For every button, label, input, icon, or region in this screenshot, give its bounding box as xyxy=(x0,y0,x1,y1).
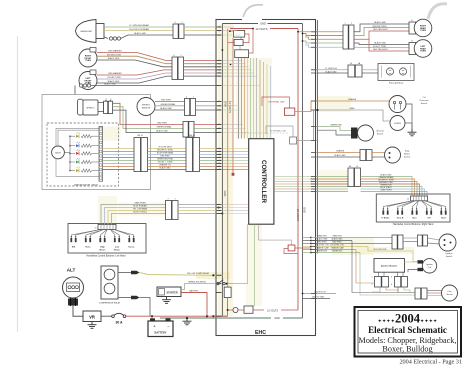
wire speedo sig xyxy=(113,107,184,129)
svg-text:Beam: Beam xyxy=(100,249,106,251)
svg-text:VIOLET-TURN: VIOLET-TURN xyxy=(107,77,121,79)
right 12V vertical label xyxy=(296,209,300,221)
EHC bottom fuse xyxy=(224,287,231,297)
label fog pwr xyxy=(325,68,337,70)
label LFT marker xyxy=(108,72,122,75)
neutral switch plug xyxy=(351,128,358,139)
handlebar left terminals xyxy=(70,230,135,252)
wire headlight high beam xyxy=(104,26,173,28)
connector rear lighting xyxy=(343,23,354,49)
EHC 12V fuse oval xyxy=(227,307,238,312)
svg-text:VR: VR xyxy=(89,315,95,320)
svg-text:GREEN SIGNAL: GREEN SIGNAL xyxy=(156,126,172,129)
page curl top right xyxy=(428,4,447,19)
svg-text:Handlebar Control Bottoms: Lef: Handlebar Control Bottoms: Left Hand xyxy=(87,254,127,257)
starter xyxy=(157,287,181,297)
svg-text:BLACK GND: BLACK GND xyxy=(156,130,168,133)
svg-text:ORANGE CAM: ORANGE CAM xyxy=(316,247,329,250)
label RRT gnd xyxy=(374,21,386,24)
horn ground symbol xyxy=(408,129,417,136)
left front turn lamp xyxy=(79,70,97,90)
EHC left edge feeds xyxy=(222,27,260,214)
external line 1 relay xyxy=(262,97,295,115)
EHC label xyxy=(255,330,266,336)
relay K3 xyxy=(235,50,249,58)
junction EHC batt xyxy=(212,315,214,317)
junction battery plus xyxy=(151,315,153,317)
wire fuse top xyxy=(227,286,229,288)
svg-text:BROWN TURN: BROWN TURN xyxy=(373,26,387,28)
svg-text:1: 1 xyxy=(193,97,194,99)
12 VOLTS top wire xyxy=(230,26,298,30)
svg-text:1: 1 xyxy=(174,199,175,201)
svg-text:3: 3 xyxy=(106,98,107,100)
svg-text:RED TAILLIGHT: RED TAILLIGHT xyxy=(373,48,388,51)
svg-text:GRAY: GRAY xyxy=(349,107,355,110)
label RFT gnd xyxy=(108,57,120,60)
wires fog to assy xyxy=(362,70,378,73)
headlight gnd bullets xyxy=(104,35,173,40)
label compressor relay xyxy=(99,302,121,305)
left 12V bus xyxy=(227,29,229,288)
wire RRT gnd xyxy=(354,24,414,32)
svg-text:YELLOW COIL: YELLOW COIL xyxy=(373,249,387,251)
wire LRT gnd xyxy=(354,43,414,45)
svg-text:RED PWR: RED PWR xyxy=(333,242,343,244)
svg-text:GND: GND xyxy=(274,317,280,320)
speedo sensor xyxy=(137,98,155,116)
label sensor gnd xyxy=(160,107,172,110)
wire headlight lb to EHC xyxy=(184,30,217,32)
label gnd bus xyxy=(274,317,280,320)
highlight band left bus xyxy=(218,24,233,316)
svg-text:SENSOR: SENSOR xyxy=(142,107,151,109)
svg-text:7: 7 xyxy=(167,199,168,201)
label RRT turn xyxy=(373,26,387,28)
label yellow comp relay xyxy=(187,272,210,275)
svg-text:TURN: TURN xyxy=(85,60,91,62)
label neutral wire xyxy=(330,125,342,127)
svg-text:TURN: TURN xyxy=(420,51,426,53)
connector cam xyxy=(415,288,427,299)
EHC aux relay xyxy=(288,245,295,251)
svg-text:BLACK GND: BLACK GND xyxy=(317,238,329,241)
wire starter battery xyxy=(181,293,207,317)
svg-text:ORANGE: ORANGE xyxy=(336,150,345,153)
controller right wires xyxy=(274,177,311,192)
svg-text:15 14 13: 15 14 13 xyxy=(309,178,311,185)
svg-text:BLUE HIGH BEAM: BLUE HIGH BEAM xyxy=(157,152,173,155)
wires EHC to rear connector xyxy=(297,31,343,47)
highlight band ignition bundle xyxy=(332,237,374,255)
ground bus wire xyxy=(160,316,303,320)
tach loop wires xyxy=(56,128,99,176)
wire solenoid into EHC xyxy=(232,283,248,285)
wires bundle down xyxy=(352,241,415,296)
wires annunciator to SB15 xyxy=(103,149,135,170)
wire oil sw gnd xyxy=(406,104,412,129)
label LRT turn xyxy=(373,46,387,48)
svg-text:EHC: EHC xyxy=(255,330,266,336)
svg-text:Low: Low xyxy=(115,247,120,249)
svg-text:Horn: Horn xyxy=(86,246,92,249)
annunciator lamp row 3 xyxy=(69,149,99,155)
svg-text:YEL LOW BEAM: YEL LOW BEAM xyxy=(133,208,148,211)
svg-text:Off: Off xyxy=(427,218,430,220)
EHC left edge pin ticks xyxy=(217,27,222,316)
title line2 xyxy=(368,325,447,335)
svg-text:STARTER: STARTER xyxy=(166,292,177,295)
svg-text:LT. GRN HIGH BEAM: LT. GRN HIGH BEAM xyxy=(129,24,149,27)
wire VR to breaker xyxy=(101,315,112,317)
label ignition switch xyxy=(445,252,453,258)
label headlight black gnd xyxy=(134,32,146,35)
svg-text:GOLD/YEL COIL: GOLD/YEL COIL xyxy=(315,245,329,247)
annunciator dashed box xyxy=(47,123,119,186)
handlebar right connector xyxy=(407,196,428,201)
ignition coil xyxy=(422,259,436,273)
svg-text:BLACK GND: BLACK GND xyxy=(108,57,120,60)
label gauge black gnd xyxy=(104,83,116,86)
svg-text:7: 7 xyxy=(344,23,345,25)
dashed signal wire xyxy=(238,132,288,134)
label RFT marker xyxy=(108,50,122,53)
alternator plug xyxy=(68,298,78,306)
connector front turn xyxy=(172,55,184,80)
connector fog xyxy=(348,62,362,77)
page curl top center xyxy=(243,5,263,18)
right rear turn lamp xyxy=(409,19,432,37)
svg-text:Sensor: Sensor xyxy=(446,294,453,296)
svg-text:BLUE HI BEAM: BLUE HI BEAM xyxy=(133,205,147,208)
page edge shadow xyxy=(17,36,19,332)
svg-text:BATTERY: BATTERY xyxy=(155,330,167,334)
left GND bus xyxy=(221,24,223,317)
module wires down xyxy=(372,287,410,293)
connector brake xyxy=(360,150,372,161)
svg-text:Neutral: Neutral xyxy=(376,130,384,133)
ignition switch xyxy=(439,234,456,251)
annunciator lamp row 2 xyxy=(69,142,99,148)
svg-text:GND: GND xyxy=(260,22,266,26)
svg-text:3: 3 xyxy=(174,22,175,24)
svg-text:1: 1 xyxy=(111,98,112,100)
controller U1 xyxy=(249,139,274,225)
wires conn to ign switch xyxy=(403,238,440,244)
label fog gnd xyxy=(326,70,338,73)
svg-text:YELLOW TACH: YELLOW TACH xyxy=(158,146,172,149)
label speedo pwr xyxy=(157,123,167,125)
ALT label xyxy=(67,268,76,273)
svg-text:1: 1 xyxy=(351,23,352,25)
highlight band right of EHC xyxy=(318,96,351,112)
label RFT turn xyxy=(107,54,121,56)
handlebar right terminals xyxy=(382,201,447,220)
VR ground xyxy=(88,322,97,329)
wire oil pressure orange xyxy=(295,101,389,112)
highlight band annunciator out xyxy=(103,127,121,141)
svg-text:ORANGE CAM: ORANGE CAM xyxy=(331,247,344,250)
svg-text:Coil: Coil xyxy=(428,267,432,269)
svg-text:SB 16: SB 16 xyxy=(189,135,195,137)
svg-text:BLACK GND: BLACK GND xyxy=(332,238,344,241)
left rear turn lamp xyxy=(409,40,432,58)
wire battery plus xyxy=(151,316,153,318)
annunciator lamp row 1 xyxy=(69,132,99,138)
svg-text:1: 1 xyxy=(181,22,182,24)
label lt grn high beam xyxy=(129,24,149,27)
wire sensor pwr xyxy=(155,101,185,103)
label gray wire xyxy=(349,107,355,110)
GND label top xyxy=(260,22,266,26)
label LFT turn xyxy=(107,77,121,79)
wires handlebar left to EHC xyxy=(178,205,223,215)
horn xyxy=(390,116,405,131)
highlight band handlebar left rows xyxy=(118,203,165,216)
connector SB16 xyxy=(186,135,200,172)
svg-text:EXTERNAL LINE: EXTERNAL LINE xyxy=(268,101,285,104)
svg-text:Turn-L: Turn-L xyxy=(128,246,135,249)
svg-text:Switch: Switch xyxy=(446,255,453,258)
EHC to ignition bundle xyxy=(303,235,393,254)
svg-text:GRAY HORN: GRAY HORN xyxy=(134,202,146,205)
ignition bundle labels 2 xyxy=(330,235,344,253)
svg-text:SB 15: SB 15 xyxy=(137,135,143,137)
svg-text:GREEN SIGNAL: GREEN SIGNAL xyxy=(160,103,176,106)
svg-text:6: 6 xyxy=(173,55,174,57)
wire RRT turn xyxy=(354,28,414,36)
svg-text:BLACK GND: BLACK GND xyxy=(104,83,116,86)
page caption xyxy=(399,359,462,366)
svg-text:RED PWR: RED PWR xyxy=(161,100,171,102)
svg-text:ORANGE: ORANGE xyxy=(348,98,357,101)
svg-text:Turn-R: Turn-R xyxy=(397,217,404,220)
svg-text:VIOLET L. TURN: VIOLET L. TURN xyxy=(158,162,173,164)
external GND bus right xyxy=(316,20,318,254)
label oil pressure xyxy=(420,97,430,105)
relay K1 xyxy=(234,30,245,37)
label sensor sig xyxy=(160,103,176,106)
left GND vertical label xyxy=(223,101,227,196)
compressor plug upper xyxy=(118,271,140,275)
svg-text:ANNUNCIATOR / TACH: ANNUNCIATOR / TACH xyxy=(74,184,98,187)
wire LRT turn xyxy=(354,46,414,48)
EHC 12V relay box xyxy=(238,306,253,313)
wire LRT tail xyxy=(369,39,414,51)
right GND bus xyxy=(302,24,304,319)
svg-text:SPEEDO: SPEEDO xyxy=(142,105,151,107)
cam sensor xyxy=(442,285,458,301)
svg-text:BROWN R. TURN: BROWN R. TURN xyxy=(157,150,173,152)
wire headlight gnd to EHC xyxy=(184,34,217,36)
left 12V vertical label xyxy=(228,101,232,113)
label annunciator xyxy=(74,184,98,187)
EHC enclosure box xyxy=(216,17,316,336)
wire horn gnd xyxy=(405,123,412,129)
svg-text:RED TAILLIGHT: RED TAILLIGHT xyxy=(373,28,388,31)
svg-text:Ignition: Ignition xyxy=(445,252,453,255)
handlebar left connector xyxy=(95,225,117,230)
connector speedo harness xyxy=(183,122,194,138)
right front turn lamp xyxy=(79,48,97,68)
external line 2 box xyxy=(266,126,297,144)
svg-text:VIOLET TURN-L: VIOLET TURN-L xyxy=(133,212,147,214)
annunciator lamp row 5 xyxy=(69,167,99,173)
wire headlight hb to EHC xyxy=(184,26,217,28)
wire speedo pwr xyxy=(113,103,184,124)
svg-text:30 A: 30 A xyxy=(115,321,123,325)
svg-text:12: 12 xyxy=(407,199,409,201)
wire speedo gnd xyxy=(113,110,184,132)
wire yellow coil xyxy=(368,247,418,262)
svg-text:Switch: Switch xyxy=(421,102,428,105)
neutral switch xyxy=(358,125,385,141)
connector speedo xyxy=(104,98,113,113)
label fog assy xyxy=(389,82,404,85)
wires handlebar left up xyxy=(101,202,166,225)
svg-text:12 VOLTS: 12 VOLTS xyxy=(267,310,278,313)
svg-text:Boxer, Bulldog: Boxer, Bulldog xyxy=(382,345,432,354)
svg-text:Kill: Kill xyxy=(72,247,76,249)
label speedo gnd xyxy=(156,130,168,133)
title year xyxy=(378,312,438,326)
svg-text:BLACK GND: BLACK GND xyxy=(335,154,347,157)
svg-text:CONTROLLER: CONTROLLER xyxy=(260,160,267,203)
connector SB15 xyxy=(134,135,148,172)
title line4 xyxy=(382,345,432,354)
svg-text:Pressure: Pressure xyxy=(420,99,430,102)
wire brake 2 xyxy=(317,154,360,157)
wires EHC to HR connector xyxy=(311,177,348,192)
svg-text:EXTERNAL LINE: EXTERNAL LINE xyxy=(270,130,287,133)
relay feed wires xyxy=(222,28,254,66)
svg-text:Cam: Cam xyxy=(447,291,452,293)
svg-text:1: 1 xyxy=(180,55,181,57)
12 VOLTS top label xyxy=(256,27,268,31)
svg-text:GND: GND xyxy=(223,191,227,197)
wires speedo to EHC xyxy=(195,125,217,133)
oil pressure switch xyxy=(389,96,406,113)
voltage regulator VR xyxy=(83,311,101,322)
svg-text:+: + xyxy=(154,324,156,328)
wires SB16 to EHC xyxy=(200,149,217,170)
solenoid switch xyxy=(217,280,232,285)
gauge gnd bullets xyxy=(75,84,217,95)
connector ign sw A xyxy=(392,235,403,249)
wire breaker to battery bus xyxy=(126,315,228,317)
sensor pin stubs xyxy=(219,101,221,111)
svg-text:RED-MARKER: RED-MARKER xyxy=(108,72,122,75)
wires brake to switch xyxy=(372,153,385,158)
highlight band handlebar left riser xyxy=(98,196,117,224)
compressor plug lower xyxy=(118,296,140,300)
EHC lower right exits xyxy=(302,292,336,299)
label speedo sig xyxy=(156,126,172,129)
headlight xyxy=(76,20,105,43)
connector ign sw B xyxy=(418,235,428,246)
svg-text:Run: Run xyxy=(412,218,417,220)
svg-text:Start: Start xyxy=(441,217,446,220)
label starter battery xyxy=(189,290,199,293)
wires front turn to EHC xyxy=(184,61,217,77)
label yellow low beam xyxy=(129,28,149,31)
svg-text:BROWN-TURN: BROWN-TURN xyxy=(107,54,121,56)
svg-text:HEADLIGHT: HEADLIGHT xyxy=(81,30,94,33)
svg-text:F. Brake: F. Brake xyxy=(382,217,391,220)
svg-text:12 VOLTS: 12 VOLTS xyxy=(228,101,232,113)
svg-text:GREEN SIG: GREEN SIG xyxy=(317,251,328,253)
svg-text:GND: GND xyxy=(223,101,227,107)
junction starter feed xyxy=(206,315,208,317)
annunciator left rail xyxy=(64,136,70,170)
wire fog gnd xyxy=(317,72,348,74)
wires sensor to EHC xyxy=(196,102,217,111)
annunciator pin strip xyxy=(99,127,103,182)
svg-text:RED PWR: RED PWR xyxy=(157,123,167,125)
svg-text:BLACK GND: BLACK GND xyxy=(160,167,172,170)
svg-text:GREEN GND: GREEN GND xyxy=(330,125,342,127)
label green solenoid xyxy=(188,282,207,284)
connector headlight xyxy=(173,22,184,39)
svg-text:GRAY HORN: GRAY HORN xyxy=(380,189,392,192)
relay K2 xyxy=(234,40,243,46)
label RRT tail xyxy=(373,28,388,31)
label yellow coil xyxy=(373,249,387,251)
wire sensor sig xyxy=(155,105,185,107)
wire battery minus gnd xyxy=(167,317,169,319)
wire green solenoid xyxy=(181,284,217,290)
wire RFT marker xyxy=(97,53,172,61)
svg-text:Ignition Module: Ignition Module xyxy=(381,265,398,268)
wires HR connector to box xyxy=(361,174,428,196)
junction gnd bus oil xyxy=(316,109,318,111)
svg-text:RED PWR: RED PWR xyxy=(318,242,328,244)
label sensor pwr xyxy=(161,100,171,102)
svg-text:LT. GRN FOG: LT. GRN FOG xyxy=(325,68,337,70)
svg-text:SPEEDO: SPEEDO xyxy=(86,108,95,110)
svg-text:TURN: TURN xyxy=(420,30,426,32)
speedo pin stubs xyxy=(219,124,221,134)
svg-text:GND: GND xyxy=(303,207,307,213)
wire comp relay yellow xyxy=(140,273,223,277)
svg-text:YELLOW COMP. RELAY: YELLOW COMP. RELAY xyxy=(187,272,210,275)
svg-text:VIOLET TURN: VIOLET TURN xyxy=(373,46,387,48)
handlebar right box xyxy=(376,194,450,222)
svg-text:2004 Electrical - Page 31: 2004 Electrical - Page 31 xyxy=(399,359,462,366)
svg-text:4: 4 xyxy=(391,284,392,286)
aux relay out xyxy=(295,247,311,249)
title line3 xyxy=(359,336,457,345)
stop brake switch xyxy=(385,147,411,163)
alternator xyxy=(63,277,84,298)
right GND vertical label xyxy=(303,207,307,213)
svg-text:12: 12 xyxy=(95,228,97,230)
svg-text:GREEN NEUTRAL: GREEN NEUTRAL xyxy=(157,158,173,161)
label LRT tail xyxy=(373,48,388,51)
wire comp lower to bus xyxy=(140,298,151,317)
svg-text:Electrical Schematic: Electrical Schematic xyxy=(368,325,447,335)
ignition module xyxy=(374,259,405,273)
svg-text:COMPRESSOR RELAY: COMPRESSOR RELAY xyxy=(99,302,121,305)
label 12 volts bottom xyxy=(267,310,278,313)
svg-text:BLACK GND: BLACK GND xyxy=(374,42,386,45)
title block xyxy=(355,307,462,357)
connector module A xyxy=(375,277,389,288)
svg-text:3: 3 xyxy=(391,277,392,279)
tachometer xyxy=(52,146,65,159)
right 12V bus xyxy=(297,29,299,311)
svg-text:YELLOW LOW BEAM: YELLOW LOW BEAM xyxy=(129,28,149,31)
